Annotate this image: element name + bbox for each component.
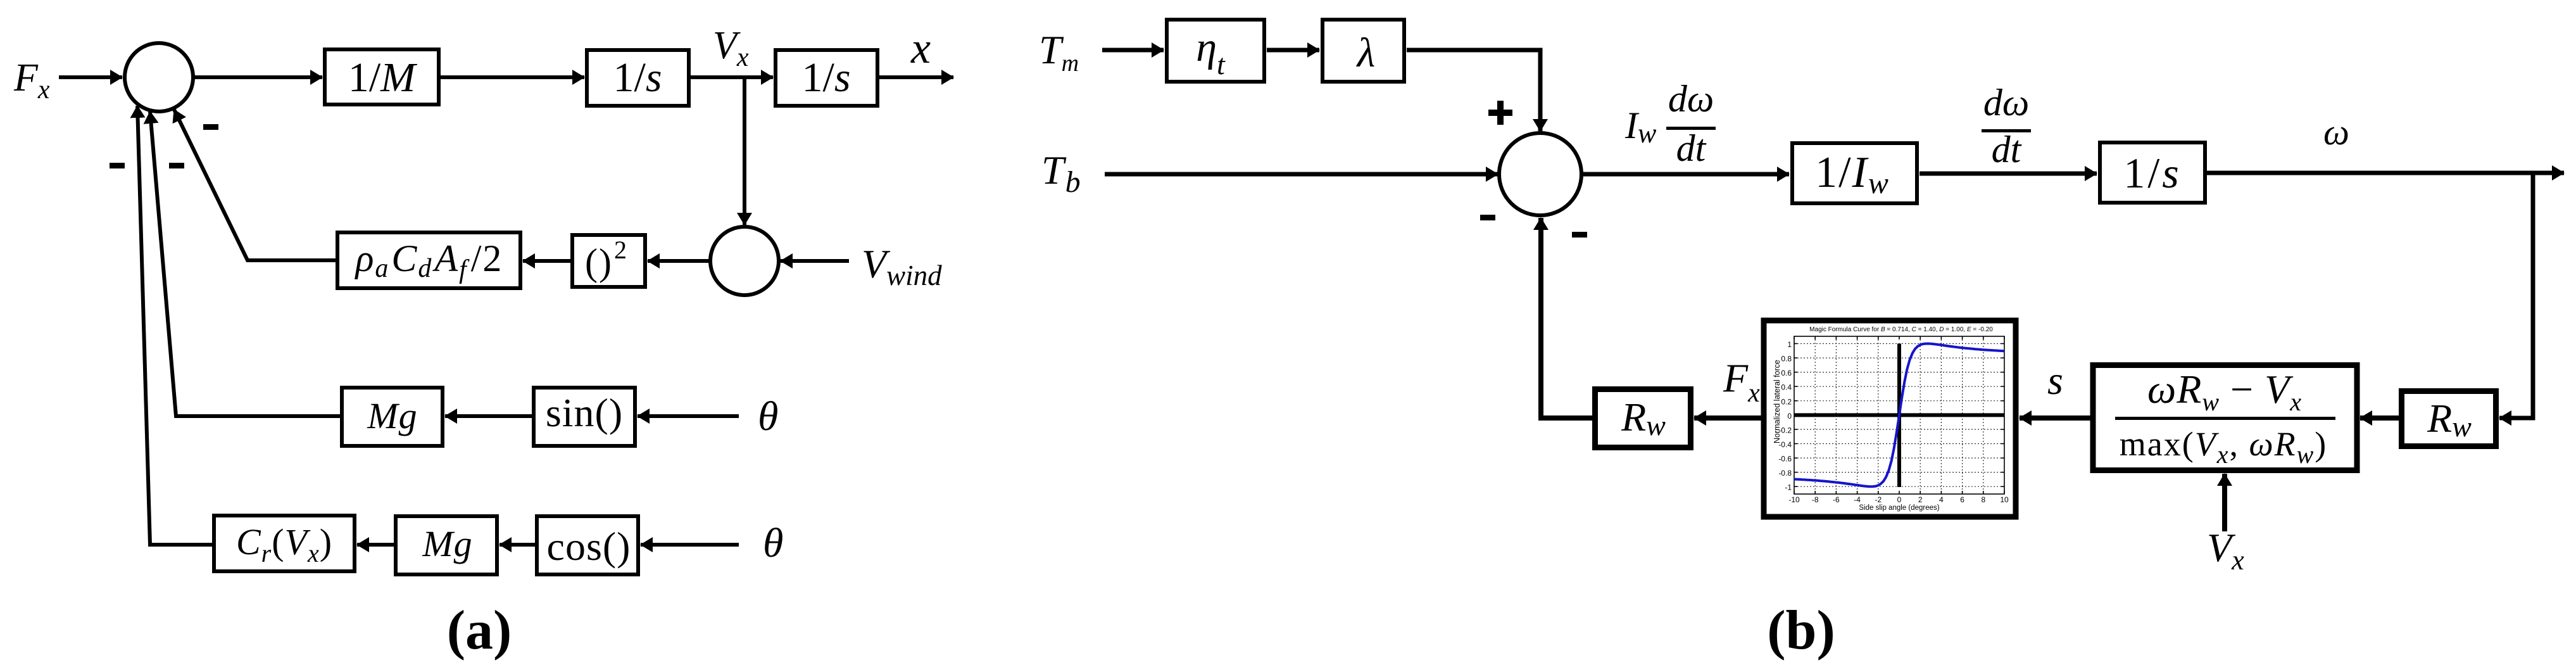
wire Fx input arrow: [59, 75, 122, 79]
wire eta to lambda: [1267, 48, 1319, 53]
plot tick marks: [1794, 336, 2004, 494]
svg-text:1: 1: [1787, 340, 1792, 349]
wire S1 to 1/M: [193, 75, 322, 79]
wire Tb to S3: [1105, 172, 1498, 177]
svg-text:ωRw − Vx: ωRw − Vx: [2147, 367, 2302, 416]
svg-text:2: 2: [1918, 495, 1923, 504]
wire 1/M to 1/s: [441, 75, 584, 79]
svg-text:-8: -8: [1812, 495, 1819, 504]
wire Tm to eta: [1102, 48, 1164, 53]
minus sign right-bottom at S3: [1572, 232, 1587, 238]
block squarer ()^2: [572, 235, 645, 287]
plot axes frame: [1794, 336, 2004, 494]
block cos(): [537, 516, 638, 574]
svg-text:0: 0: [1897, 495, 1902, 504]
wire cos to Mg2: [499, 543, 535, 547]
svg-text:1/s: 1/s: [801, 54, 850, 101]
wire Mg2 to Cr: [357, 543, 394, 547]
svg-text:cos(): cos(): [547, 524, 631, 569]
wire theta2 to cos: [641, 543, 739, 547]
block 1/Iw: [1792, 143, 1917, 203]
svg-text:dt: dt: [1676, 127, 1707, 169]
svg-text:0.8: 0.8: [1781, 355, 1792, 364]
svg-text:dω: dω: [1983, 82, 2029, 124]
summing junction S1: [125, 43, 193, 111]
block magic formula plot: [1764, 320, 2016, 517]
svg-text:0.6: 0.6: [1781, 369, 1792, 377]
svg-text:-0.6: -0.6: [1778, 455, 1792, 464]
svg-text:0: 0: [1787, 412, 1792, 421]
wire theta1 to sin: [638, 414, 739, 418]
minus sign left-bottom at S3: [1480, 215, 1495, 220]
block sin(): [534, 388, 635, 446]
wire 1/s to omega output: [2206, 171, 2564, 175]
svg-text:10: 10: [2000, 495, 2009, 504]
svg-text:x: x: [910, 24, 931, 73]
plot grid: [1794, 336, 2004, 494]
wire Vx tap down to wind summer: [743, 77, 746, 225]
svg-text:sin(): sin(): [546, 390, 623, 435]
svg-text:0.4: 0.4: [1781, 383, 1792, 392]
svg-text:Normalized lateral force: Normalized lateral force: [1773, 360, 1781, 443]
wire sin to Mg: [445, 414, 532, 418]
wire squarer to drag block: [523, 259, 570, 263]
svg-text:λ: λ: [1356, 30, 1376, 76]
svg-text:-2: -2: [1875, 495, 1882, 504]
plot x tick labels: [1788, 495, 2009, 504]
wire Mg to S1 elbow: [150, 111, 340, 416]
wire Rw left to S3 bottom: [1541, 218, 1594, 418]
minus sign middle at S1: [169, 163, 184, 168]
summing junction S3: [1499, 133, 1581, 215]
svg-text:1/s: 1/s: [2123, 149, 2181, 197]
wire Rw right to slip block: [2360, 415, 2399, 421]
wire slip to plot: [2020, 415, 2092, 421]
plot blue magic formula curve: [1794, 344, 2004, 487]
svg-text:Mg: Mg: [367, 395, 417, 436]
block drag rhoCdAf/2: [337, 232, 520, 288]
wire S2 to squarer: [648, 259, 710, 263]
wire Vwind to S2: [781, 259, 849, 263]
wire Vx into slip block: [2222, 474, 2227, 531]
svg-text:-10: -10: [1788, 495, 1800, 504]
block Mg rolling: [396, 516, 497, 574]
svg-text:θ: θ: [758, 393, 778, 440]
svg-text:1/M: 1/M: [348, 54, 418, 101]
block Mg slope: [342, 388, 443, 446]
block slip formula: [2093, 365, 2357, 471]
svg-text:4: 4: [1939, 495, 1944, 504]
svg-text:1/s: 1/s: [613, 54, 662, 101]
minus sign left at S1: [110, 163, 125, 168]
wire 1/s to 1/s with junction: [691, 75, 773, 79]
wire plot to Rw left: [1694, 415, 1762, 421]
svg-text:dω: dω: [1668, 78, 1714, 120]
minus sign right at S1: [203, 124, 218, 130]
block Cr(Vx): [214, 516, 355, 571]
wire x output arrow: [879, 75, 953, 79]
svg-text:-0.8: -0.8: [1778, 469, 1792, 478]
plus sign at S3: [1488, 101, 1512, 125]
block 1/s second integrator: [776, 50, 877, 106]
wire 1/Iw to 1/s: [1919, 172, 2097, 176]
node Fx input label: [13, 56, 50, 105]
block lambda: [1323, 20, 1404, 82]
node dw/dt label: [1982, 82, 2031, 170]
svg-text:6: 6: [1960, 495, 1964, 504]
block 1/M: [325, 49, 439, 105]
svg-text:8: 8: [1981, 495, 1985, 504]
wire S3 to 1/Iw: [1581, 172, 1789, 177]
svg-text:-4: -4: [1854, 495, 1861, 504]
wire omega feedback down: [2499, 173, 2533, 418]
plot heavy zero axes: [1794, 413, 2004, 417]
summing junction S2 wind: [710, 227, 779, 295]
svg-text:Mg: Mg: [422, 523, 472, 564]
svg-text:(a): (a): [447, 600, 512, 661]
block Rw left: [1595, 390, 1691, 448]
wire Cr to S1: [137, 106, 212, 545]
block Rw right: [2402, 391, 2496, 447]
svg-text:ω: ω: [2323, 111, 2349, 153]
wire drag block to S1 elbow: [174, 110, 336, 260]
block 1/s first integrator: [587, 50, 689, 106]
plot y tick labels: [1778, 340, 1792, 492]
wire lambda to S3 top: [1407, 50, 1540, 131]
block eta_t: [1167, 20, 1264, 82]
svg-text:θ: θ: [763, 520, 783, 566]
block 1/s wheel integrator: [2100, 143, 2205, 203]
svg-text:-1: -1: [1785, 483, 1792, 492]
svg-text:Magic Formula Curve for B = 0.: Magic Formula Curve for B = 0.714, C = 1…: [1809, 326, 1993, 333]
svg-text:(b): (b): [1767, 600, 1835, 661]
node Iw dw/dt label: [1624, 78, 1716, 169]
svg-text:0.2: 0.2: [1781, 397, 1792, 406]
svg-text:Side slip angle (degrees): Side slip angle (degrees): [1859, 504, 1939, 512]
svg-text:s: s: [2047, 358, 2063, 403]
svg-text:dt: dt: [1992, 129, 2022, 170]
svg-text:-6: -6: [1833, 495, 1840, 504]
